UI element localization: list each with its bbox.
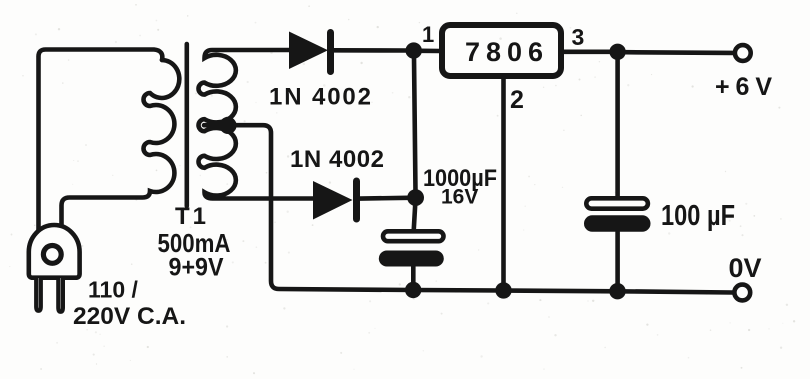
capacitor C2 100uF top plate (586, 198, 648, 208)
node center tap dot (219, 117, 236, 134)
primary winding of transformer T1 (62, 60, 180, 230)
wire primary loop: plug left pin up, top rail, into coil top (39, 50, 163, 235)
svg-text:110 /: 110 / (88, 277, 138, 303)
plug hole (43, 246, 61, 264)
regulator pin2 wire down (501, 79, 506, 290)
svg-text:3: 3 (572, 24, 585, 50)
svg-text:9+9V: 9+9V (169, 254, 224, 282)
wire C1 to ground rail (411, 267, 416, 290)
wire junction down to C1 node (414, 57, 416, 192)
svg-text:1N 4002: 1N 4002 (269, 84, 371, 111)
svg-text:220V C.A.: 220V C.A. (73, 303, 186, 330)
node junction dot at 7806 input (406, 42, 422, 58)
node junction dot at output (609, 44, 625, 60)
node ground dots (405, 282, 421, 298)
node junction dot C1/D2 (407, 189, 424, 206)
regulator U1 7806 box (442, 25, 561, 76)
wire node to C1 (414, 203, 416, 229)
svg-text:1: 1 (422, 22, 434, 47)
transformer core (185, 44, 190, 206)
svg-text:1N 4002: 1N 4002 (290, 146, 384, 173)
terminal 0V (734, 285, 750, 301)
terminal +6V (735, 45, 751, 61)
diode D1 1N4002 (top) (289, 32, 407, 72)
wire C2 to ground rail (615, 232, 620, 291)
secondary winding of transformer T1 (199, 50, 313, 199)
diode D2 1N4002 (bottom) (313, 181, 408, 220)
capacitor C1 1000uF bottom plate (379, 251, 444, 267)
center tap wire + ground rail (204, 125, 732, 292)
capacitor C2 100uF bottom plate (584, 215, 651, 232)
capacitor C1 1000uF top plate (383, 231, 444, 241)
AC plug body (29, 225, 80, 278)
svg-text:T1: T1 (175, 203, 209, 230)
plug prong right (58, 278, 63, 312)
svg-text:+6V: +6V (715, 73, 772, 101)
wire to +6V terminal (625, 50, 733, 55)
wire dot to regulator (420, 48, 441, 53)
svg-text:2: 2 (510, 86, 524, 114)
svg-text:0V: 0V (729, 253, 762, 283)
svg-text:100 µF: 100 µF (661, 200, 735, 232)
svg-text:16V: 16V (441, 186, 478, 209)
wire output node down to C2 (615, 58, 620, 196)
plug prong left (36, 278, 41, 311)
wire pin3 out (564, 49, 610, 54)
